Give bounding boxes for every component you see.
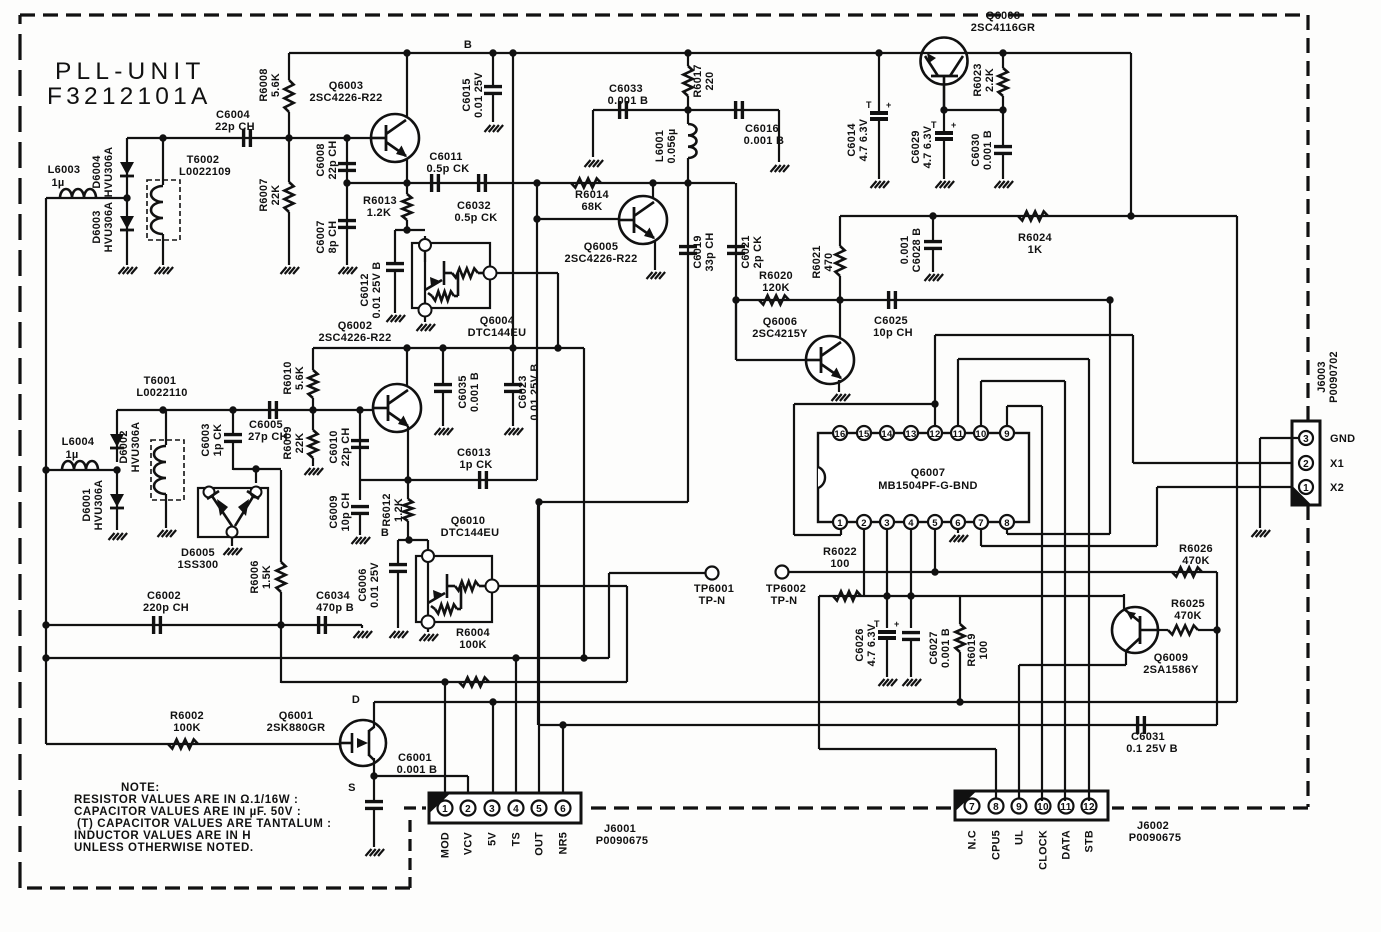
wire Q6006 base [736,359,806,361]
svg-text:TP-N: TP-N [771,595,798,607]
ground below C6009 [352,537,358,544]
ground below R6007 [281,267,287,274]
svg-text:4: 4 [513,804,519,815]
pin 3 J6001 [485,801,500,816]
wire pin3 drop [886,529,888,628]
svg-text:D6003: D6003 [91,210,103,243]
wire Q6006 base drop [735,300,737,360]
resistor R6009 [312,410,314,430]
svg-text:2SC4215Y: 2SC4215Y [752,328,808,340]
wire X2 riser [1156,487,1158,546]
svg-text:2SC4116GR: 2SC4116GR [971,22,1035,34]
capacitor C6003 [232,410,234,433]
wire Q6002 collector rail [313,347,584,349]
pin circle D6005 right [251,487,262,498]
transistor Q6003 2SC4226-R22 [371,114,419,162]
svg-text:R6021: R6021 [811,245,823,278]
pin 3 IC Q6007 [880,515,894,529]
svg-text:5.6K: 5.6K [270,73,282,97]
capacitor C6012 [394,230,396,262]
svg-text:C6014: C6014 [846,123,858,156]
wire Q6010 output drop [626,586,628,682]
svg-text:100: 100 [830,558,849,570]
pin 1 J6003 [1299,480,1313,494]
test point TP6002 [776,566,789,579]
svg-text:RESISTOR VALUES ARE IN Ω.1/16: RESISTOR VALUES ARE IN Ω.1/16W : [74,794,298,806]
svg-text:C6016: C6016 [745,123,779,135]
svg-text:0.001 B: 0.001 B [982,130,994,170]
svg-text:C6019: C6019 [692,235,704,268]
svg-text:F3212101A: F3212101A [47,83,212,110]
svg-text:C6030: C6030 [970,133,982,166]
pin 4 IC Q6007 [904,515,918,529]
resistor R6013 [406,183,408,194]
wire B+ to second osc [512,53,514,348]
svg-text:R6020: R6020 [759,270,793,282]
pin circle Q6010 input [422,550,434,562]
wire C6019 bottom line [538,501,688,503]
svg-text:+: + [894,619,899,629]
wire X1 top run [935,334,1133,336]
svg-text:470: 470 [823,253,835,272]
svg-text:1SS300: 1SS300 [178,559,219,571]
svg-text:X1: X1 [1330,458,1344,470]
svg-text:3: 3 [1303,434,1309,445]
svg-text:470p B: 470p B [316,602,354,614]
svg-text:0.001: 0.001 [899,236,911,265]
wire C6033 line [593,109,779,111]
inductor L6001 [687,110,689,124]
wire C6033 gnd lead [592,110,594,157]
transistor Q6008 2SC4116GR [921,38,968,85]
resistor R6022 100 [833,591,861,600]
wire Q6005 collector stub [652,183,654,199]
svg-text:2: 2 [465,804,471,815]
svg-text:0.001 B: 0.001 B [469,372,481,412]
svg-text:L6003: L6003 [48,164,81,176]
wire Q6004 output [496,272,558,274]
svg-text:C6032: C6032 [457,200,491,212]
ground below C6026 [879,679,885,686]
node pin5 at TP line [931,568,938,575]
svg-text:8: 8 [1004,518,1010,529]
ground below D6005 [224,548,230,555]
wire X1 drop [1132,335,1134,463]
svg-text:PLL-UNIT: PLL-UNIT [55,58,206,85]
svg-text:10p CH: 10p CH [873,327,913,339]
svg-text:C6011: C6011 [429,151,462,163]
wire STB drop [1088,359,1090,801]
svg-text:5V: 5V [487,832,499,846]
wire Q6010 input lead [427,540,429,550]
transistor Q6009 2SA1586Y [1112,607,1158,653]
svg-text:Q6004: Q6004 [480,315,515,327]
svg-text:X2: X2 [1330,482,1344,494]
node rail x407 [403,344,410,351]
wire VCV drop [467,776,469,801]
svg-text:C6029: C6029 [910,130,922,163]
svg-text:CAPACITOR VALUES ARE IN µF. 50: CAPACITOR VALUES ARE IN µF. 50V : [74,806,301,818]
svg-text:R6022: R6022 [823,546,857,558]
wire Q6005 base tap [536,183,538,219]
node top rail x879 [875,49,882,56]
IC Q6007 body [818,433,1029,522]
ground below D6003 [119,267,125,274]
svg-text:1.2K: 1.2K [367,207,391,219]
svg-text:C6002: C6002 [147,590,181,602]
svg-text:C6007: C6007 [315,220,327,253]
resistor R6014 [571,178,601,187]
svg-text:13: 13 [905,429,916,440]
svg-text:TP6001: TP6001 [694,583,734,595]
resistor R6008 [288,53,290,80]
wire Q6010 bottom stub [427,628,429,632]
svg-text:4.7 6.3V: 4.7 6.3V [858,118,870,161]
svg-text:C6021: C6021 [740,235,752,268]
svg-text:C6008: C6008 [315,143,327,176]
wire Q6006 emitter stub [838,380,840,392]
node pin8 loop top [1106,296,1113,303]
digital transistor Q6010 DTC144EU box [416,556,492,622]
svg-text:0.01 25V B: 0.01 25V B [371,261,383,318]
svg-text:C6027: C6027 [928,631,940,664]
svg-text:HVU306A: HVU306A [103,202,115,253]
svg-text:D6001: D6001 [81,488,93,521]
Q6004 internals [424,251,426,290]
wire pin6 stub [957,529,959,533]
wire L6003 lead [46,197,127,199]
node tuning line x584 [580,654,587,661]
wire C6021 drop [735,183,737,360]
wire MOD drop [444,682,446,801]
svg-text:C6005: C6005 [249,419,283,431]
node C6002 line x281 [277,621,284,628]
svg-text:DTC144EU: DTC144EU [468,327,527,339]
ground IC pin6 [950,535,956,542]
wire CPU5 run [819,748,996,750]
svg-text:8: 8 [993,802,999,813]
svg-text:C6015: C6015 [461,78,473,111]
svg-text:+: + [886,100,891,110]
svg-text:2SA1586Y: 2SA1586Y [1143,664,1199,676]
pin 12 IC Q6007 [928,426,942,440]
wire CPU5 riser [818,596,820,749]
svg-text:9: 9 [1016,802,1022,813]
pin 9 J6002 [1012,799,1027,814]
svg-text:Q6007: Q6007 [911,467,946,479]
wire pin10 riser [980,381,982,426]
node left rail y658 [42,654,49,661]
capacitor C6034 [317,616,320,634]
svg-text:12: 12 [1083,802,1095,813]
node R6013 bottom [403,226,410,233]
node R6025 junction [1213,626,1220,633]
node Q6004 out at rail [554,344,561,351]
svg-text:NR5: NR5 [558,832,570,855]
pin 9 IC Q6007 [1000,426,1014,440]
wire Q6010 input line [398,539,428,541]
transistor Q6005 2SC4226-R22 [619,196,667,244]
capacitor C6011 [430,174,433,192]
node 5V x960 [956,698,963,705]
ground below C6030 [995,181,1001,188]
node R6020 line x736 [732,296,739,303]
wire rail to tuning line [583,348,585,658]
svg-text:C6033: C6033 [609,83,643,95]
svg-text:68K: 68K [581,201,602,213]
node pin4 crossing [907,592,914,599]
svg-text:1: 1 [837,518,843,529]
svg-text:7: 7 [969,802,975,813]
pin 2 J6001 [461,801,476,816]
svg-text:16: 16 [834,429,845,440]
svg-text:1µ: 1µ [65,449,78,461]
pin circle Q6004 output [484,267,497,280]
wire R6022 line [819,595,1124,597]
capacitor C6004 [242,129,245,147]
ground below C6027 [903,679,909,686]
svg-text:D6004: D6004 [91,155,103,188]
D6005 internals [212,496,232,526]
resistor R6017 [687,53,689,66]
svg-text:DTC144EU: DTC144EU [441,527,500,539]
node R6024 line x933 [929,212,936,219]
wire B+ top rail [289,52,1131,54]
svg-text:0.1 25V B: 0.1 25V B [1126,743,1178,755]
wire R6026 drop [1216,572,1218,725]
digital transistor Q6004 DTC144EU box [412,243,490,308]
svg-text:C6003: C6003 [200,423,212,456]
svg-text:N.C: N.C [967,830,979,850]
capacitor C6014 electrolytic [878,53,880,112]
ground below C6035 [435,428,441,435]
wire pin9 riser [1006,406,1008,426]
capacitor C6010 [351,439,369,442]
svg-text:9: 9 [1004,429,1010,440]
connector J6002 box [955,791,1108,820]
test point TP6001 [706,567,719,580]
capacitor C6007 [338,219,356,222]
resistor R6002 100K [168,739,198,748]
node D6005 right anode [252,465,259,472]
svg-text:R6013: R6013 [363,195,397,207]
svg-text:R6023: R6023 [972,63,984,96]
svg-text:R6008: R6008 [258,68,270,101]
node pin3 crossing [883,592,890,599]
svg-text:C6023: C6023 [517,375,529,408]
wire OUT drop [538,502,540,801]
svg-text:Q6003: Q6003 [329,80,364,92]
svg-text:470K: 470K [1174,610,1202,622]
frame dashed border top [20,13,1308,16]
svg-text:R6025: R6025 [1171,598,1205,610]
diode D6004 HVU306A [120,162,134,175]
wire CLOCK drop [1041,406,1043,801]
svg-text:R6004: R6004 [456,627,490,639]
resistor R6024 [1018,211,1048,220]
wire X2 bottom run [981,545,1157,547]
svg-text:4.7 6.3V: 4.7 6.3V [866,623,878,666]
svg-text:3: 3 [489,804,495,815]
svg-text:R6019: R6019 [966,633,978,666]
pin 6 IC Q6007 [951,515,965,529]
ground below Q6004 [417,324,423,331]
IC Q6007 notch [818,467,825,488]
wire T6001 top lead [165,410,167,445]
frame dashed border left [18,15,21,888]
node top rail x513 [509,49,516,56]
pin 3 J6003 [1299,431,1313,445]
svg-text:1.2K: 1.2K [393,498,405,522]
svg-text:2: 2 [861,518,867,529]
svg-text:R6026: R6026 [1179,543,1213,555]
svg-text:T6001: T6001 [144,375,177,387]
svg-text:Q6001: Q6001 [279,710,314,722]
wire varactor2 chain bottom [116,470,118,530]
wire tuning line [46,657,609,659]
wire NR5 riser [537,502,539,725]
wire Q6008 rail corner [1130,53,1132,216]
svg-text:J6002: J6002 [1137,820,1169,832]
capacitor C6031 [1136,716,1139,734]
node top rail x493 [489,49,496,56]
wire pin4 drop [910,529,912,628]
capacitor C6002 [152,616,155,634]
node top rail x1003 [999,49,1006,56]
ground below C6029 [936,181,942,188]
svg-text:R6010: R6010 [282,361,294,394]
svg-text:C6001: C6001 [398,752,432,764]
svg-text:STB: STB [1084,830,1096,853]
svg-text:P0090675: P0090675 [596,835,649,847]
svg-text:OUT: OUT [534,832,546,856]
diode D6002 HVU306A [110,434,124,447]
ground below T6002 [155,267,161,274]
capacitor C6030 [1002,110,1004,145]
wire Q6009 bottom lead [1125,650,1127,665]
pin circle Q6004 common [419,304,432,317]
svg-text:L0022109: L0022109 [179,166,231,178]
svg-text:220: 220 [704,72,716,91]
capacitor C6035 [442,348,444,383]
wire Q6003 collector [406,53,408,122]
svg-text:0.001 B: 0.001 B [608,95,649,107]
wire 5V feed right [1236,216,1238,702]
svg-text:P0090702: P0090702 [1328,351,1340,403]
svg-text:C6034: C6034 [316,590,350,602]
wire Q6002 base line [117,409,373,411]
svg-text:12: 12 [929,429,940,440]
node tuning line x516 [512,654,519,661]
svg-text:1: 1 [442,804,448,815]
wire Q6006 collector stub [839,300,841,338]
capacitor C6019 [679,245,697,248]
resistor R6021 470 [839,216,841,246]
pin 5 J6001 [532,801,547,816]
svg-text:2SC4226-R22: 2SC4226-R22 [309,92,382,104]
wire C6008 C6007 chain [346,138,348,265]
svg-text:1.5K: 1.5K [261,565,273,589]
wire GND lead [1260,437,1299,439]
svg-text:C6010: C6010 [328,430,340,463]
svg-text:0.001 B: 0.001 B [397,764,438,776]
svg-text:B: B [464,39,472,51]
svg-text:NOTE:: NOTE: [121,782,160,794]
ground below C6034 [354,631,360,638]
pin 7 IC Q6007 [974,515,988,529]
ground below D6001 [109,533,115,540]
svg-text:0.01 25V: 0.01 25V [369,562,381,608]
capacitor C6015 [492,53,494,85]
wire C6001 gnd lead [373,809,375,847]
capacitor C6029 electrolytic [943,110,945,132]
svg-text:470K: 470K [1182,555,1210,567]
svg-text:C6031: C6031 [1131,731,1165,743]
resistor R6019 100 [959,596,961,624]
frame dashed border right [1306,15,1309,421]
svg-text:5.6K: 5.6K [294,366,306,390]
transistor Q6006 2SC4215Y [806,336,854,384]
wire C6002 line [46,624,362,626]
svg-text:27p CH: 27p CH [248,431,288,443]
frame dashed border near J6001 [404,806,426,809]
capacitor C6026 electrolytic [878,630,896,634]
node y183 x537 [533,179,540,186]
capacitor C6025 [887,291,890,309]
wire Q6001 drain lead [373,702,375,728]
svg-text:3: 3 [884,518,890,529]
capacitor C6001 [365,800,383,803]
pin 11 IC Q6007 [951,426,965,440]
node Q6003 emitter junction [403,179,410,186]
wire varactor chain [126,138,128,265]
wire X2 line [1157,486,1298,488]
ground below C6023 [505,428,511,435]
wire Q6002 emitter stub [407,426,409,480]
ground below C6006 [390,631,396,638]
node rail x513 [509,344,516,351]
wire Q6004 input line [395,229,425,231]
svg-text:C6028 B: C6028 B [911,228,923,273]
svg-text:0.5p CK: 0.5p CK [454,212,497,224]
node base line x347 [343,134,350,141]
pin 10 IC Q6007 [974,426,988,440]
connector J6003 box [1292,421,1320,505]
wire Q6004 input lead [424,236,426,262]
svg-text:5: 5 [536,804,542,815]
resistor R6023 [1002,53,1004,68]
ground below R6009 [305,468,311,475]
svg-text:C6012: C6012 [359,273,371,306]
svg-text:T: T [866,100,872,110]
node left rail y470 [42,466,49,473]
wire C6013 riser [536,219,538,480]
node y183 x688 [684,179,691,186]
capacitor C6028 [932,216,934,240]
pin 8 IC Q6007 [1000,515,1014,529]
capacitor C6021 [727,245,745,248]
node NR5 x563 [559,721,566,728]
svg-text:+: + [951,120,956,130]
svg-text:MB1504PF-G-BND: MB1504PF-G-BND [878,480,978,492]
wire pin2 drop [863,529,865,596]
svg-text:DATA: DATA [1061,830,1073,860]
wire DATA top run [981,380,1065,382]
svg-text:TP6002: TP6002 [766,583,806,595]
svg-text:6: 6 [955,518,961,529]
svg-text:R6014: R6014 [575,189,609,201]
wire 5V drop to pin3 [492,702,494,801]
